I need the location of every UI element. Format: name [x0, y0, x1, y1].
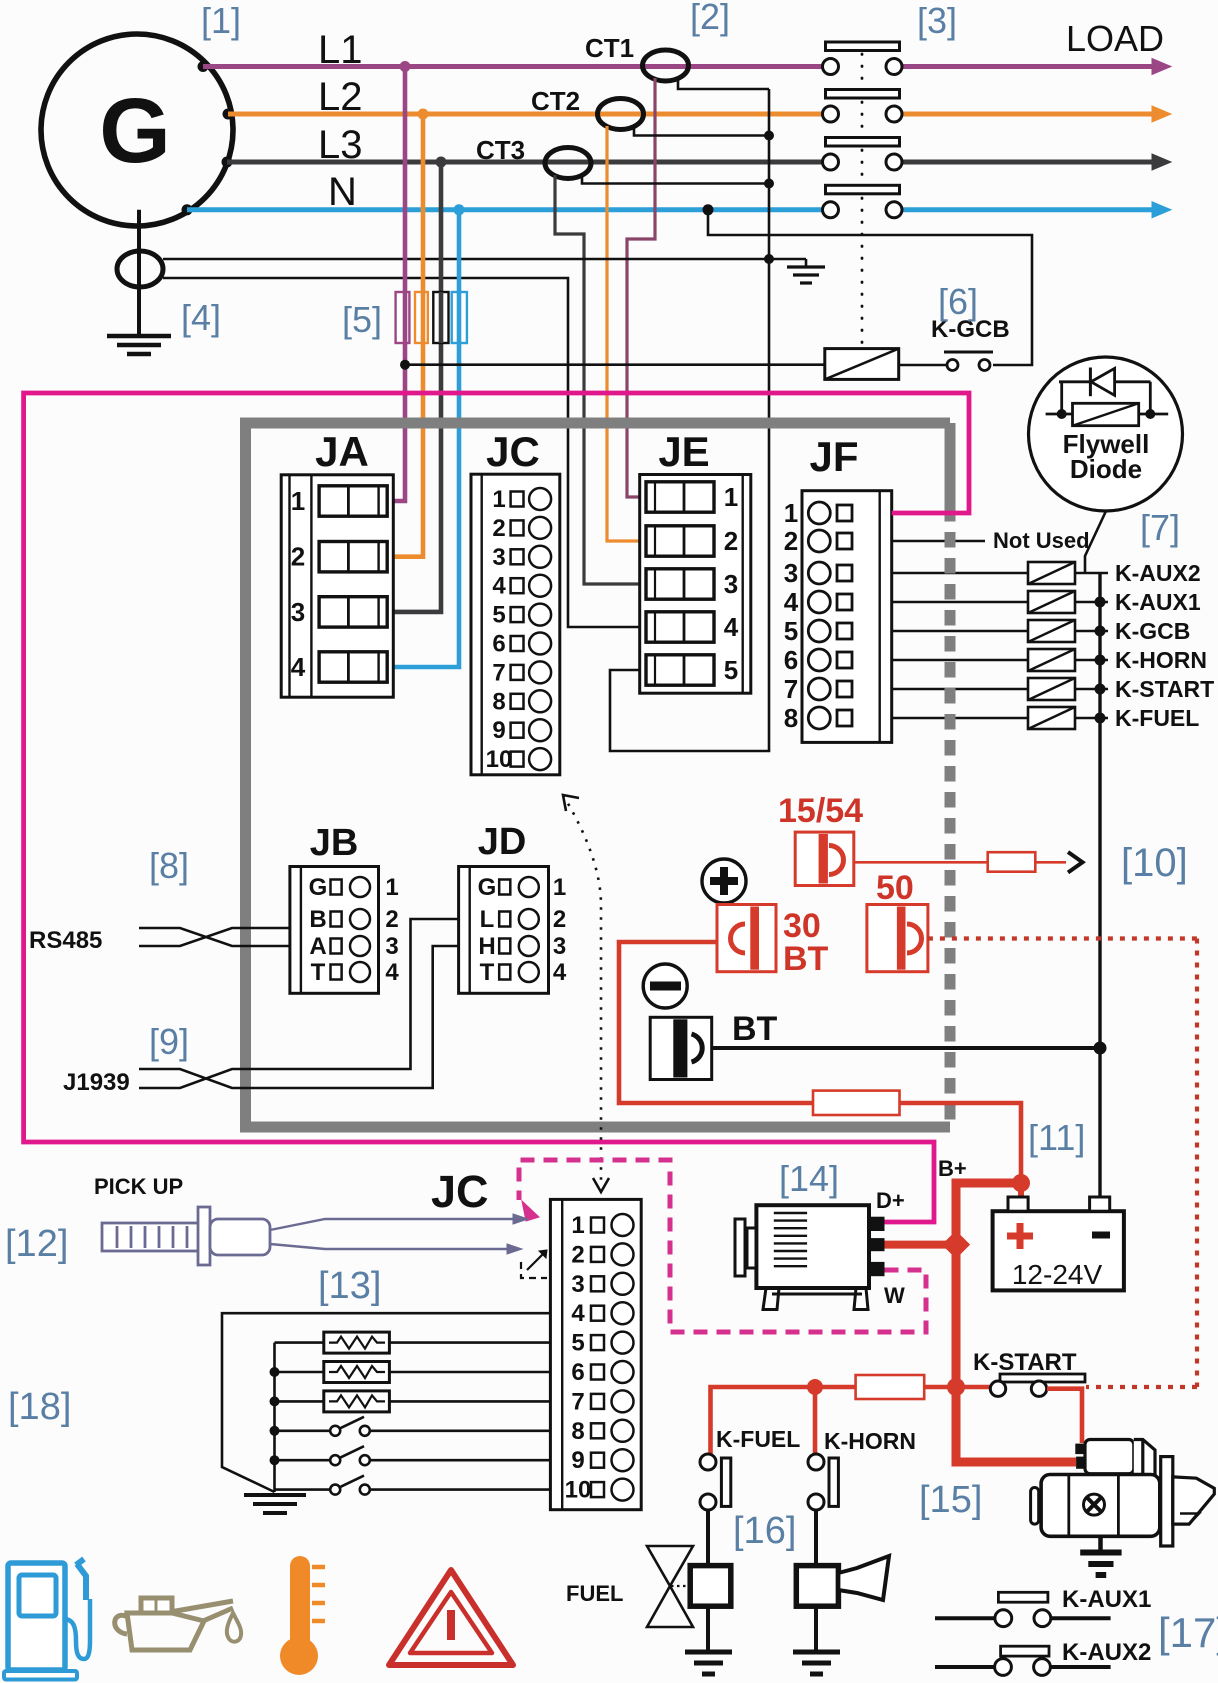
ground symbol near breaker	[769, 259, 825, 283]
svg-text:8: 8	[784, 703, 798, 733]
wire fuse to K-START	[924, 1378, 990, 1396]
svg-text:4: 4	[571, 1300, 585, 1327]
ground symbol generator	[107, 287, 171, 354]
svg-text:[11]: [11]	[1028, 1117, 1085, 1158]
svg-text:BT: BT	[783, 940, 829, 978]
battery terminal BT block	[650, 1017, 712, 1079]
svg-text:4: 4	[784, 587, 799, 617]
breaker contact pole L1	[823, 42, 903, 75]
svg-text:[4]: [4]	[181, 297, 221, 338]
wire 15/54 output [10]	[854, 861, 1066, 864]
pickup wire to JC1	[270, 1214, 528, 1230]
svg-text:K-AUX1: K-AUX1	[1115, 589, 1201, 615]
svg-text:2: 2	[492, 515, 505, 542]
svg-text:50: 50	[876, 869, 914, 907]
connector JD	[459, 821, 567, 993]
key switch terminal 50	[867, 905, 928, 972]
svg-text:L2: L2	[318, 75, 363, 119]
svg-text:LOAD: LOAD	[1066, 18, 1164, 59]
J1939 twisted pair wires	[139, 919, 459, 1088]
svg-text:[14]: [14]	[779, 1158, 839, 1199]
alternative W input dashed arrow	[521, 1250, 547, 1278]
CT3 secondary return wire	[582, 175, 769, 184]
wire N to K-GCB contact	[703, 204, 1033, 365]
svg-text:K-START: K-START	[1115, 676, 1214, 702]
CT2 secondary wire (orange)	[607, 126, 646, 541]
svg-text:1: 1	[553, 874, 566, 901]
charger alternator	[735, 1205, 885, 1309]
breaker contact pole L3	[823, 138, 903, 171]
contact K-AUX1	[935, 1592, 1111, 1626]
svg-text:3: 3	[291, 597, 305, 627]
wire JF1 to external loop (magenta)	[24, 393, 969, 1222]
fuel solenoid	[690, 1510, 731, 1650]
connector JC (panel)	[471, 428, 560, 775]
svg-text:1: 1	[492, 486, 505, 513]
svg-text:5: 5	[784, 616, 798, 646]
svg-text:BT: BT	[732, 1010, 778, 1048]
resistive sender R1	[275, 1332, 551, 1353]
battery plus symbol	[702, 859, 746, 903]
horn symbol	[838, 1556, 889, 1600]
wire BT to battery minus bus	[712, 1042, 1107, 1055]
svg-text:3: 3	[553, 933, 566, 960]
wire L1 sense to K-GCB coil	[400, 360, 825, 370]
wire N bus	[187, 202, 1171, 218]
svg-text:JC: JC	[486, 428, 540, 475]
contact K-GCB	[899, 316, 1010, 371]
fuse starter circuit	[856, 1375, 925, 1399]
svg-text:9: 9	[571, 1447, 584, 1474]
wire L2 bus	[228, 106, 1171, 122]
svg-text:K-AUX2: K-AUX2	[1115, 560, 1201, 586]
svg-text:1: 1	[724, 482, 738, 512]
fuse main battery	[813, 1091, 900, 1115]
svg-text:10: 10	[565, 1477, 592, 1504]
wire B+ thick positive cable	[956, 1183, 1076, 1462]
voltage sense wire to JA1	[389, 67, 405, 502]
breaker contact pole L4	[823, 185, 903, 218]
svg-text:K-AUX1: K-AUX1	[1062, 1586, 1151, 1613]
svg-text:W: W	[884, 1283, 905, 1308]
svg-text:T: T	[480, 959, 495, 986]
switch sender S1	[275, 1417, 551, 1436]
svg-text:JC: JC	[431, 1166, 489, 1217]
icon oil can	[115, 1598, 241, 1650]
svg-text:JE: JE	[658, 428, 709, 475]
svg-text:[12]: [12]	[5, 1223, 68, 1265]
wire terminal 30 to battery plus	[619, 942, 813, 1103]
wire JF2 Not Used	[892, 540, 985, 543]
svg-text:[17]: [17]	[1158, 1609, 1218, 1656]
voltage sense wire to JA3	[389, 162, 441, 612]
CT1 secondary return wire	[678, 78, 769, 89]
svg-text:Diode: Diode	[1070, 454, 1142, 484]
fuse F2 (L2 sense)	[415, 292, 428, 343]
current transformer CT3	[476, 135, 591, 179]
svg-text:K-START: K-START	[973, 1349, 1077, 1376]
svg-text:[2]: [2]	[690, 0, 730, 37]
svg-text:1: 1	[571, 1212, 584, 1239]
horn relay load	[796, 1510, 838, 1650]
starter motor M	[1031, 1440, 1215, 1547]
pickup wire to JC2	[270, 1244, 522, 1254]
wire terminal 50 to K-START (dotted)	[928, 939, 1197, 1388]
svg-text:3: 3	[724, 569, 738, 599]
arrow output [10]	[1068, 852, 1083, 873]
svg-text:B+: B+	[938, 1156, 967, 1181]
svg-text:[10]: [10]	[1121, 841, 1188, 885]
svg-text:JD: JD	[478, 821, 527, 863]
svg-text:10: 10	[486, 746, 513, 773]
wire ignition feed to K-FUEL K-HORN	[711, 1379, 856, 1454]
battery minus symbol	[643, 964, 687, 1008]
svg-text:J1939: J1939	[63, 1069, 130, 1096]
controller enclosure box	[240, 418, 950, 1132]
svg-text:G: G	[99, 80, 171, 182]
contact K-HORN	[808, 1454, 838, 1510]
battery minus bus wire	[1098, 573, 1101, 1197]
svg-text:L: L	[480, 906, 495, 933]
svg-text:H: H	[478, 933, 495, 960]
svg-text:1: 1	[291, 486, 305, 516]
svg-text:9: 9	[492, 717, 505, 744]
contact K-AUX2	[935, 1646, 1111, 1675]
svg-text:5: 5	[492, 602, 505, 629]
ground symbol fuel solenoid	[685, 1652, 732, 1674]
svg-text:K-HORN: K-HORN	[1115, 647, 1207, 673]
CT3 secondary wire	[555, 175, 646, 584]
svg-text:2: 2	[724, 526, 738, 556]
switch sender S3	[275, 1476, 551, 1495]
svg-text:[18]: [18]	[8, 1386, 71, 1428]
diode D1	[1059, 368, 1151, 397]
CT4 lead wire to JE4	[163, 278, 646, 627]
svg-text:K-GCB: K-GCB	[1115, 618, 1190, 644]
svg-text:[8]: [8]	[149, 845, 189, 886]
ground symbol sender bus	[244, 1495, 306, 1513]
CT common return vertical	[764, 89, 774, 751]
flywheel diode circle U-fly	[1029, 357, 1183, 511]
svg-text:8: 8	[492, 688, 505, 715]
CT1 secondary wire (maroon)	[627, 78, 655, 497]
svg-text:8: 8	[571, 1418, 584, 1445]
svg-text:6: 6	[571, 1359, 584, 1386]
svg-text:4: 4	[553, 959, 567, 986]
resistive sender R3	[275, 1391, 551, 1412]
svg-text:4: 4	[385, 959, 399, 986]
wire alternator charge output	[885, 1230, 971, 1258]
voltage sense wire to JA4	[389, 210, 459, 667]
icon warning triangle	[389, 1570, 513, 1665]
ground symbol starter	[1080, 1536, 1121, 1575]
svg-text:1: 1	[784, 498, 798, 528]
svg-text:7: 7	[571, 1388, 584, 1415]
svg-text:JF: JF	[809, 433, 858, 480]
connector JA	[281, 428, 393, 697]
svg-text:4: 4	[291, 652, 306, 682]
svg-text:[13]: [13]	[318, 1265, 381, 1307]
relay coil K-AUX1	[892, 591, 1108, 613]
svg-text:[1]: [1]	[201, 0, 241, 41]
relay coil K-GCB	[892, 620, 1108, 642]
svg-text:4: 4	[492, 573, 506, 600]
svg-text:L1: L1	[318, 28, 363, 72]
svg-text:3: 3	[492, 544, 505, 571]
svg-text:12-24V: 12-24V	[1012, 1259, 1103, 1290]
pickup sensor	[102, 1207, 270, 1265]
wire L3 bus	[227, 154, 1171, 170]
svg-text:1: 1	[385, 874, 398, 901]
svg-text:G: G	[478, 874, 497, 901]
svg-text:6: 6	[784, 645, 798, 675]
svg-text:2: 2	[291, 542, 305, 572]
wire flywheel circle to K-AUX2 node	[1085, 511, 1106, 573]
svg-text:CT2: CT2	[531, 86, 580, 116]
current transformer CT4 (earth)	[117, 251, 163, 287]
svg-text:7: 7	[492, 659, 505, 686]
svg-text:[15]: [15]	[919, 1479, 982, 1521]
breaker contact pole L2	[823, 90, 903, 123]
icon thermometer	[280, 1556, 325, 1675]
svg-text:JB: JB	[310, 822, 359, 864]
battery 12-24V	[993, 1197, 1124, 1290]
generator G	[41, 34, 234, 226]
svg-text:FUEL: FUEL	[566, 1581, 623, 1606]
svg-text:2: 2	[553, 906, 566, 933]
fuse F3 (L3 sense)	[433, 292, 448, 343]
svg-text:2: 2	[784, 526, 798, 556]
svg-text:PICK UP: PICK UP	[94, 1174, 183, 1199]
relay coil K-HORN	[892, 649, 1108, 671]
svg-text:K-HORN: K-HORN	[824, 1428, 916, 1454]
relay coil K-FUEL	[892, 707, 1108, 729]
resistive sender R2	[275, 1362, 551, 1383]
relay coil K-GCB	[825, 349, 899, 380]
svg-text:2: 2	[385, 906, 398, 933]
svg-text:[16]: [16]	[733, 1510, 796, 1552]
CT4 lead wire to ground node	[163, 258, 769, 261]
breaker actuator dotted link	[861, 42, 864, 346]
current transformer CT1	[585, 33, 689, 81]
relay coil K-AUX2	[892, 562, 1108, 584]
svg-text:[6]: [6]	[938, 281, 978, 322]
svg-text:[3]: [3]	[917, 0, 957, 41]
fuse F1 (L1 sense)	[396, 292, 410, 343]
svg-text:4: 4	[724, 612, 739, 642]
svg-text:2: 2	[571, 1241, 584, 1268]
svg-text:[5]: [5]	[342, 299, 382, 340]
voltage sense wire to JA2	[389, 114, 423, 557]
svg-text:Not Used: Not Used	[993, 528, 1090, 553]
svg-text:7: 7	[784, 674, 798, 704]
svg-text:5: 5	[571, 1330, 584, 1357]
svg-text:T: T	[311, 959, 326, 986]
svg-text:K-FUEL: K-FUEL	[716, 1426, 800, 1452]
svg-text:A: A	[309, 933, 326, 960]
sender common bus	[270, 1343, 280, 1492]
connector JB	[290, 822, 399, 993]
svg-text:K-AUX2: K-AUX2	[1062, 1639, 1151, 1666]
dotted arrow JC panel to JC plug	[563, 795, 609, 1192]
key switch terminal 15/54	[795, 832, 854, 885]
svg-text:CT3: CT3	[476, 135, 525, 165]
svg-text:[7]: [7]	[1140, 507, 1180, 548]
svg-text:RS485: RS485	[29, 927, 102, 954]
relay coil inside flywheel circle	[1046, 382, 1169, 426]
svg-text:6: 6	[492, 631, 505, 658]
svg-text:[9]: [9]	[149, 1021, 189, 1062]
svg-text:3: 3	[784, 558, 798, 588]
svg-text:K-FUEL: K-FUEL	[1115, 705, 1199, 731]
wire fuse to battery plus	[900, 1103, 1031, 1198]
wire generator neutral down	[137, 210, 141, 330]
wire JC4 to sender common	[222, 1313, 550, 1492]
svg-text:B: B	[309, 906, 326, 933]
switch sender S2	[275, 1446, 551, 1465]
svg-text:CT1: CT1	[585, 33, 634, 63]
svg-text:D+: D+	[876, 1188, 905, 1213]
fuse F4 (N sense)	[452, 292, 467, 343]
connector JC (engine plug)	[550, 1199, 641, 1509]
connector JE	[640, 428, 751, 693]
fuel valve symbol	[647, 1546, 693, 1627]
current transformer CT2	[531, 86, 644, 130]
svg-text:15/54: 15/54	[778, 792, 863, 830]
svg-text:L3: L3	[318, 123, 363, 167]
wire alternator W to JC1 (dashed)	[519, 1160, 926, 1332]
svg-text:5: 5	[724, 655, 738, 685]
wire JE5 to CT common return	[610, 670, 770, 751]
CT2 secondary return wire	[634, 126, 769, 136]
svg-text:G: G	[309, 874, 328, 901]
relay coil K-START	[892, 678, 1108, 700]
svg-text:3: 3	[385, 933, 398, 960]
icon fuel pump	[4, 1559, 90, 1680]
svg-text:N: N	[328, 170, 357, 214]
fuse on 15/54 output	[988, 852, 1036, 872]
contact K-START	[990, 1374, 1085, 1396]
connector JF	[784, 433, 892, 742]
contact K-FUEL	[700, 1454, 731, 1510]
svg-text:3: 3	[571, 1271, 584, 1298]
svg-text:JA: JA	[315, 428, 369, 475]
wire L1 bus	[203, 59, 1171, 75]
RS485 twisted pair wires	[139, 928, 290, 946]
ground symbol horn	[793, 1652, 840, 1674]
key switch terminal 30 BT	[717, 905, 776, 972]
wire K-START to starter solenoid	[1047, 1389, 1082, 1443]
